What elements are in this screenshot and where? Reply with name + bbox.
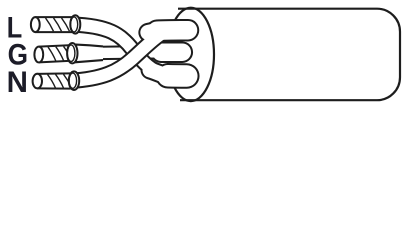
- svg-text:N: N: [7, 66, 28, 99]
